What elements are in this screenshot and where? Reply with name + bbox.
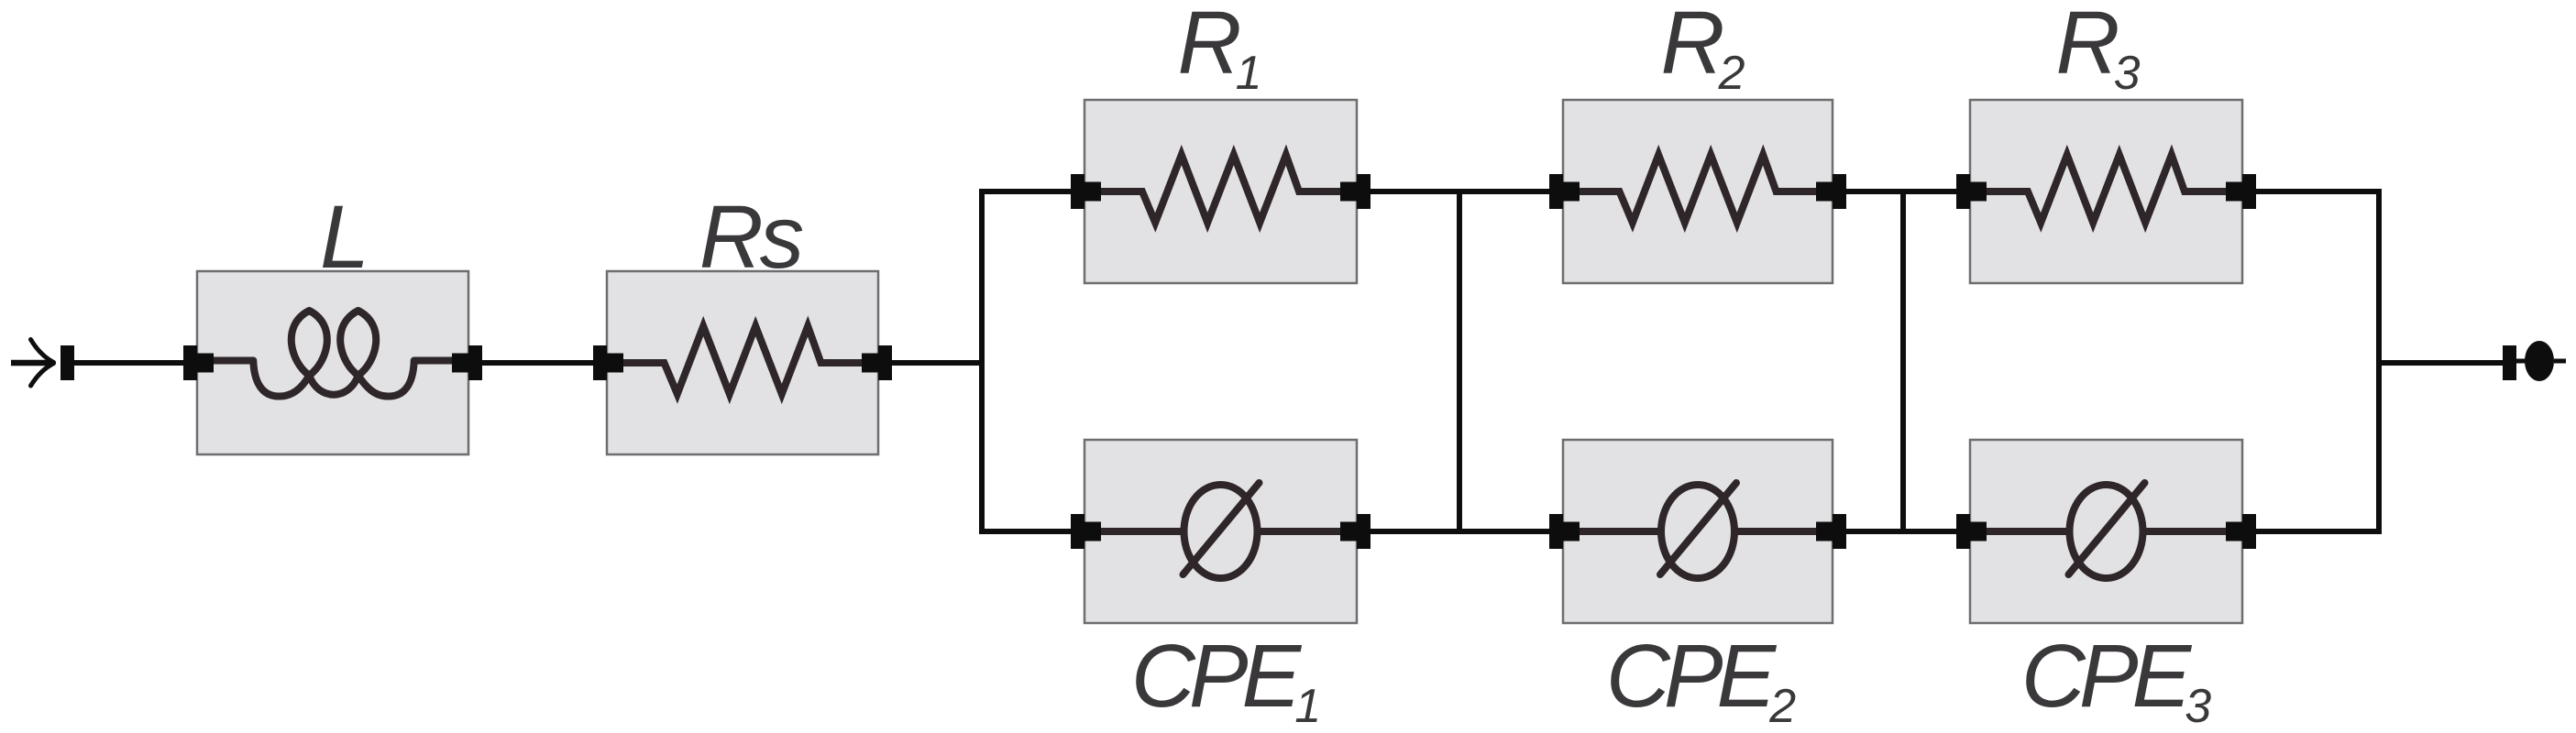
wire CPE3 to node D (2256, 529, 2379, 534)
input arrow (11, 340, 54, 387)
CPE2 box (1563, 440, 1833, 623)
CPE2 symbol (1580, 483, 1816, 578)
resistor R3 box (1970, 100, 2242, 283)
wire CPE1 to CPE2 (1371, 529, 1549, 534)
resistor Rs terminals (593, 345, 892, 380)
CPE3 box (1970, 440, 2242, 623)
label Rs (699, 187, 803, 287)
resistor R1 symbol (1101, 155, 1340, 223)
wire node D to output (2379, 360, 2503, 366)
label R3 (2056, 0, 2141, 100)
CPE3 symbol (1987, 483, 2226, 578)
node C bus (1900, 189, 1906, 534)
svg-text:R2: R2 (1661, 0, 1745, 100)
input terminal (61, 345, 74, 380)
node B bus (1457, 189, 1462, 534)
inductor L box (197, 271, 468, 454)
wire input to L (74, 360, 183, 366)
svg-text:R1: R1 (1178, 0, 1259, 100)
svg-text:Rs: Rs (699, 187, 803, 287)
wire L to Rs (482, 360, 593, 366)
label CPE1 (1131, 626, 1317, 733)
svg-text:CPE3: CPE3 (2021, 626, 2211, 733)
label L (320, 187, 369, 287)
resistor R1 box (1084, 100, 1357, 283)
label R1 (1178, 0, 1259, 100)
resistor R2 box (1563, 100, 1833, 283)
label R2 (1661, 0, 1745, 100)
wire R2 to R3 (1846, 189, 1956, 194)
node A left bus (979, 189, 985, 534)
resistor Rs box (607, 271, 878, 454)
label CPE2 (1606, 626, 1796, 733)
label CPE3 (2021, 626, 2211, 733)
resistor Rs symbol (623, 326, 862, 394)
svg-text:L: L (320, 187, 369, 287)
resistor R1 terminals (1071, 174, 1371, 209)
resistor R3 terminals (1956, 174, 2256, 209)
inductor L symbol (212, 311, 454, 397)
CPE3 terminals (1956, 514, 2256, 549)
wire terminal to dot (2516, 359, 2526, 364)
output terminal rect (2503, 345, 2516, 380)
svg-text:CPE1: CPE1 (1131, 626, 1317, 733)
wire R1 to R2 (1371, 189, 1549, 194)
resistor R3 symbol (1987, 155, 2226, 223)
wire bus to CPE1 (982, 529, 1071, 534)
wire bus to R1 (982, 189, 1071, 194)
wire Rs to node A (892, 360, 982, 366)
inductor L terminals (183, 345, 482, 380)
CPE1 box (1084, 440, 1357, 623)
CPE2 terminals (1549, 514, 1846, 549)
resistor R2 terminals (1549, 174, 1846, 209)
resistor R2 symbol (1580, 155, 1816, 223)
output dot (2525, 341, 2554, 381)
CPE1 symbol (1101, 483, 1340, 578)
CPE1 terminals (1071, 514, 1371, 549)
node D right bus (2376, 189, 2382, 534)
output stub (2554, 359, 2566, 364)
svg-text:CPE2: CPE2 (1606, 626, 1796, 733)
wire CPE2 to CPE3 (1846, 529, 1956, 534)
svg-text:R3: R3 (2056, 0, 2141, 100)
wire R3 to node D (2256, 189, 2379, 194)
